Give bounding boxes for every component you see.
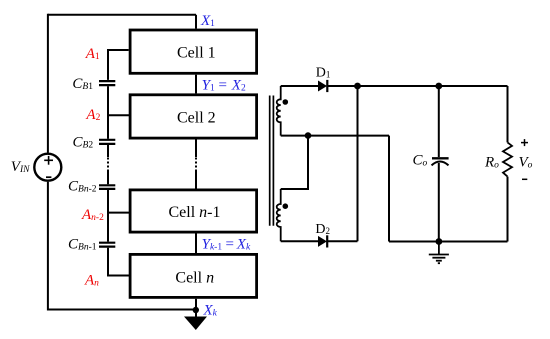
cell n box (130, 254, 257, 297)
svg-text:Cell 1: Cell 1 (177, 45, 216, 62)
wire into Celln-1 solid part (195, 171, 197, 189)
source VIN minus sign (46, 176, 51, 178)
wire ladder into CBn-2 (107, 171, 109, 184)
svg-text:Y1=X2: Y1=X2 (202, 78, 246, 94)
wire Cell1 to Cell2 (node Y1=X2) (195, 75, 197, 94)
source VIN plus sign (44, 156, 53, 165)
wire Celln bottom to node Xk (195, 299, 197, 317)
cell 2 box (130, 95, 257, 138)
cell 1 box (130, 30, 257, 73)
winding top dot (283, 99, 289, 105)
wire An-2 stub (108, 212, 129, 214)
capacitor Co lower wire (438, 163, 440, 242)
resistor Ro upper wire (507, 86, 509, 142)
wire ladder dotted continuation (107, 158, 109, 172)
node center-tap junction dot (305, 132, 312, 139)
wire top rail from VIN to X1 (48, 14, 196, 16)
svg-text:Yk-1=Xk: Yk-1=Xk (202, 237, 251, 253)
capacitor Co upper wire (438, 86, 440, 157)
capacitor CBn-1 (99, 243, 115, 247)
source VIN circle (34, 154, 61, 181)
wire A1 stub (108, 50, 129, 80)
transformer winding top (secondary 1) (277, 86, 281, 136)
capacitor CBn-2 (99, 185, 115, 189)
capacitor Co (432, 158, 449, 165)
wire A2 stub (108, 114, 130, 116)
capacitor CB2 (99, 140, 115, 144)
wire Celln-1 to Celln (node Yk-1=Xk) (195, 234, 197, 254)
wire Cell2 down solid part (195, 140, 197, 158)
node ground junction dot (436, 238, 443, 245)
wire output bottom rail (389, 241, 508, 243)
wire center-tap to bottom winding top (281, 136, 308, 189)
cell n-1 box (130, 190, 257, 232)
label Vo minus (522, 178, 527, 180)
svg-text:Cell n-1: Cell n-1 (169, 204, 221, 221)
wire left rail upper (VIN top) (47, 14, 49, 153)
wire D1 cathode to output rail (327, 85, 507, 87)
node Co top junction dot (435, 83, 442, 90)
node Xk junction dot (193, 307, 199, 313)
wire ladder CBn-2 to CBn-1 (107, 190, 109, 242)
wire D2 cathode to riser (327, 240, 357, 242)
wire top rail winding to D1 (281, 85, 318, 87)
resistor Ro lower wire (507, 177, 509, 242)
transformer winding bottom (secondary 2) (277, 189, 281, 241)
wire ladder CB1 to CB2 (107, 86, 109, 139)
wire bottom winding to D2 (281, 240, 318, 242)
wire left rail lower (VIN bottom to bottom rail) (48, 182, 196, 310)
wire An stub (108, 248, 130, 276)
wire ladder below CB2 solid (107, 145, 109, 157)
capacitor CB1 (99, 81, 115, 85)
wire center-tap rail drop to ground rail (388, 136, 390, 242)
wire Cell2-Celln-1 dotted continuation (195, 158, 197, 172)
ground arrow at Xk (184, 317, 207, 331)
svg-text:Cell n: Cell n (175, 269, 214, 286)
ground symbol (429, 242, 449, 264)
wire riser D2 to top rail (357, 86, 359, 241)
svg-text:Cell 2: Cell 2 (177, 110, 216, 127)
diode D2 (318, 235, 327, 247)
diode D1 (318, 80, 327, 92)
wire center-tap rail (281, 135, 389, 137)
wire X1 drop into Cell 1 (195, 15, 197, 29)
resistor Ro zigzag (503, 142, 512, 176)
node after D1 junction dot (354, 83, 361, 90)
label Vo plus (521, 139, 528, 146)
transformer core (270, 96, 274, 226)
winding bottom dot (283, 203, 289, 209)
